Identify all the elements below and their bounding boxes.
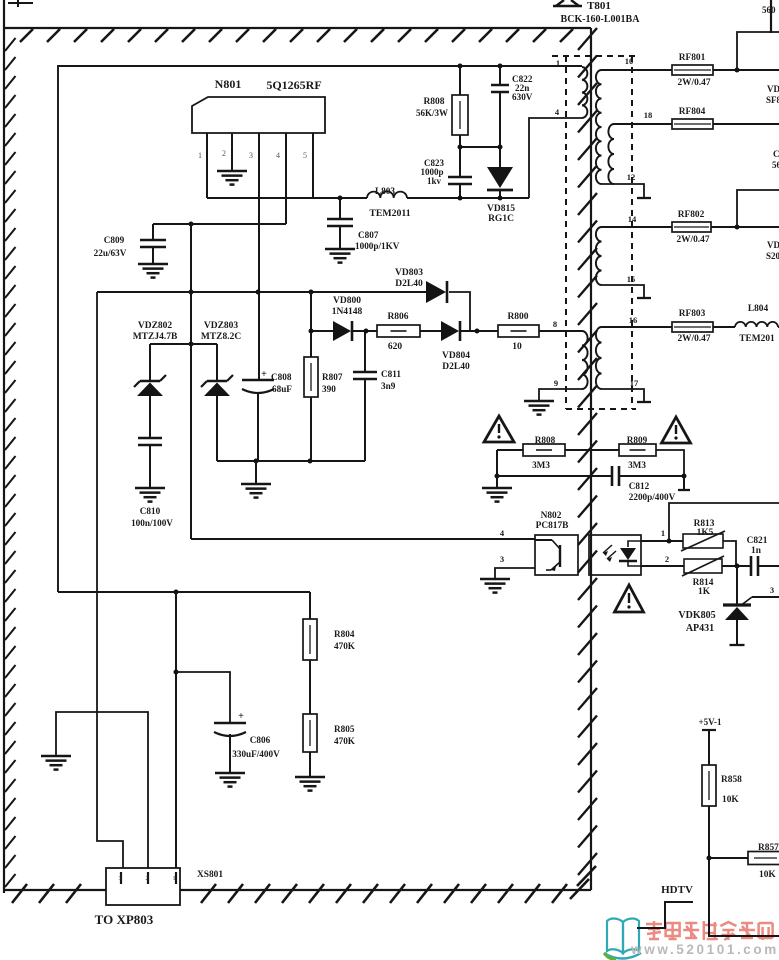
transformer T801 secondary winding pins 14-15 (596, 227, 602, 285)
svg-text:C812: C812 (629, 481, 650, 491)
svg-text:R804: R804 (334, 629, 355, 639)
wire RF801 output to right edge with branch up (713, 32, 779, 73)
capacitor C808 68uF electrolytic (242, 369, 292, 461)
wire R813 right lead down to pin2 node (723, 541, 736, 566)
wire VD800 to R806 (353, 329, 377, 334)
svg-text:1K: 1K (698, 587, 711, 597)
ground at transformer pin 9 (524, 401, 554, 415)
wire transformer pin 9 to ground (539, 378, 582, 401)
warning triangle below optocoupler LED (615, 585, 644, 612)
svg-text:+: + (238, 711, 244, 722)
wire transformer pin 16 to RF803 (602, 315, 673, 327)
zener diode VDZ803 MTZ8.2C (201, 321, 242, 461)
resistor R808 3M3 (497, 435, 565, 470)
zener diode VDZ802 MTZJ4.7B (133, 321, 178, 438)
wire branch x311 from y292 to VD800 anode node (310, 292, 312, 331)
svg-text:1000p/1KV: 1000p/1KV (355, 241, 400, 251)
svg-text:3: 3 (119, 876, 122, 882)
wire R808 to R809 across shield (565, 449, 619, 451)
svg-text:RG1C: RG1C (488, 214, 514, 224)
wire VD803 cathode down to R800 row (449, 292, 470, 331)
warning triangle near R808 3M3 (484, 416, 514, 442)
svg-text:N802: N802 (541, 511, 562, 521)
svg-text:N801: N801 (215, 77, 242, 91)
ground at left rail (41, 756, 71, 770)
svg-text:SF8: SF8 (766, 95, 779, 105)
fusible resistor RF803 2W/0.47 (672, 309, 713, 344)
svg-text:330uF/400V: 330uF/400V (232, 749, 280, 759)
svg-text:AP431: AP431 (686, 623, 714, 634)
svg-text:2: 2 (146, 876, 149, 882)
svg-text:VDZ803: VDZ803 (204, 321, 239, 331)
svg-text:RF804: RF804 (679, 107, 706, 117)
warning triangle near R809 (662, 417, 691, 443)
svg-text:TEM201: TEM201 (739, 334, 775, 344)
inductor L804 TEM201 (713, 304, 779, 344)
svg-text:R800: R800 (507, 312, 528, 322)
capacitor C809 22u/63V (94, 224, 166, 264)
capacitor C810 100n/100V (131, 438, 173, 528)
svg-text:560: 560 (762, 5, 776, 15)
svg-text:4: 4 (276, 151, 280, 160)
capacitor C823 1000p 1kv (420, 147, 472, 199)
clipped component labels at right edge (762, 5, 779, 261)
svg-text:MTZ8.2C: MTZ8.2C (201, 332, 242, 342)
svg-text:5: 5 (303, 151, 307, 160)
svg-text:10K: 10K (759, 870, 776, 880)
transformer T801 secondary winding pins 10-12 (596, 70, 602, 184)
svg-text:VD804: VD804 (442, 351, 470, 361)
svg-text:VDZ802: VDZ802 (138, 321, 173, 331)
svg-text:56: 56 (772, 160, 779, 170)
shield boundary top (hatched) (4, 28, 591, 42)
N801 pin 3 lead (long, to C808) (249, 133, 259, 379)
ground at R805 (295, 777, 325, 791)
svg-text:C809: C809 (104, 235, 125, 245)
wire drain node from N801 pin1 to transformer pin 4 (207, 118, 582, 201)
signal HDTV stub (637, 884, 693, 928)
op-amp U1 regulator IC N801 5Q1265RF body (192, 77, 325, 133)
svg-text:1: 1 (198, 151, 202, 160)
svg-text:470K: 470K (334, 641, 356, 651)
svg-text:TEM2011: TEM2011 (369, 208, 410, 219)
wire Vcc row y224 (153, 222, 286, 227)
node R858/R857 junction (707, 856, 712, 861)
svg-text:C807: C807 (358, 230, 379, 240)
svg-text:S20: S20 (766, 251, 779, 261)
svg-text:3n9: 3n9 (381, 381, 396, 391)
optocoupler N802 PC817B body (535, 511, 641, 575)
svg-text:2W/0.47: 2W/0.47 (676, 235, 709, 245)
capacitor C821 1n (747, 536, 779, 576)
transformer T801 primary winding pins 1-4 (555, 58, 588, 118)
svg-text:TO XP803: TO XP803 (95, 912, 154, 927)
diode VD804 D2L40 (441, 321, 470, 372)
fusible resistor RF804 (672, 107, 713, 129)
ground at C806 (215, 773, 245, 787)
svg-text:R858: R858 (721, 775, 742, 785)
capacitor C812 2200p/400V (612, 466, 676, 502)
svg-text:VDK805: VDK805 (678, 610, 715, 621)
svg-text:MTZJ4.7B: MTZJ4.7B (133, 332, 178, 342)
ground at C807 (325, 249, 355, 263)
wire VDK805 reference pin 3 from right edge (740, 585, 779, 606)
connector XS801 (106, 868, 223, 905)
svg-text:16: 16 (629, 315, 638, 325)
svg-text:VD815: VD815 (487, 204, 515, 214)
wire rail y292 from left to VD803 (97, 290, 426, 295)
svg-text:BCK-160-L001BA: BCK-160-L001BA (561, 14, 641, 25)
warning triangle at T801 (clipped) (553, 0, 582, 6)
svg-text:1N4148: 1N4148 (332, 307, 363, 317)
svg-text:C808: C808 (271, 372, 292, 382)
resistor R858 10K (702, 765, 742, 858)
wire transformer pin 15 return (602, 274, 652, 298)
svg-text:R807: R807 (322, 372, 343, 382)
scan artifact marks (8, 0, 771, 33)
wire B+ bottom rail y592 (58, 590, 310, 595)
svg-text:R805: R805 (334, 724, 355, 734)
wire R800 to transformer pin 8 (539, 319, 582, 331)
optocoupler phototransistor (pins 4,3) (535, 540, 560, 571)
svg-text:RF801: RF801 (679, 53, 706, 63)
shunt regulator VDK805 AP431 (678, 566, 751, 645)
svg-text:10: 10 (625, 56, 634, 66)
svg-text:3M3: 3M3 (532, 460, 550, 470)
svg-text:3: 3 (770, 585, 774, 595)
shield boundary right (hatched) (578, 28, 597, 890)
wire zener top rail y344 (150, 343, 217, 345)
wire transformer pin 17 return (602, 378, 652, 402)
svg-text:R808: R808 (423, 97, 444, 107)
svg-text:390: 390 (322, 384, 336, 394)
svg-text:1K5: 1K5 (697, 528, 714, 538)
wire R804 to R805 (309, 660, 311, 714)
svg-text:VD800: VD800 (333, 296, 361, 306)
N801 pin 2 lead to ground (222, 133, 232, 171)
svg-text:www.520101.com: www.520101.com (630, 942, 779, 957)
svg-text:RF803: RF803 (679, 309, 706, 319)
N801 pin 5 lead (303, 133, 313, 198)
svg-text:+5V-1: +5V-1 (699, 717, 722, 727)
resistor R806 620 (377, 312, 420, 352)
resistor R807 390 (304, 331, 343, 461)
wire feedback vertical x191 to optocoupler pin 4 (189, 224, 536, 539)
svg-text:2: 2 (665, 554, 669, 564)
resistor R813 1K5 (681, 519, 725, 551)
transformer T801 BCK-160-L001BA dashed outline (552, 56, 636, 409)
svg-text:2W/0.47: 2W/0.47 (677, 334, 710, 344)
svg-text:10: 10 (512, 342, 522, 352)
ground at C812 left (482, 476, 512, 502)
svg-text:VD8: VD8 (767, 240, 779, 250)
ground stub at rail y461 (241, 461, 271, 498)
svg-text:HDTV: HDTV (661, 884, 693, 896)
node junction dots on B+ rail (458, 64, 503, 69)
capacitor C811 3n9 (353, 331, 401, 461)
svg-text:68uF: 68uF (272, 384, 292, 394)
transformer T801 primary aux winding pins 8-9 (582, 331, 588, 389)
page border line left (4, 0, 16, 893)
label TO XP803 (95, 912, 154, 927)
svg-text:R808: R808 (535, 435, 556, 445)
fusible resistor RF802 2W/0.47 (672, 210, 711, 245)
svg-text:1: 1 (173, 876, 176, 882)
svg-text:10K: 10K (722, 795, 739, 805)
capacitor C806 330uF/400V electrolytic (214, 711, 280, 773)
power +5V-1 supply (699, 717, 722, 765)
svg-text:C810: C810 (140, 506, 161, 516)
optocoupler pin 4 label (500, 528, 505, 538)
wire divider tap vertical x176 to connector (174, 592, 179, 868)
svg-text:3: 3 (500, 554, 504, 564)
wire VD804 to R800 (461, 329, 498, 334)
svg-text:D2L40: D2L40 (442, 362, 470, 372)
wire optocoupler pin 3 to ground (495, 554, 535, 579)
svg-text:1n: 1n (751, 546, 762, 556)
ground at C810 (135, 488, 165, 502)
svg-text:5Q1265RF: 5Q1265RF (266, 78, 321, 92)
svg-text:2200p/400V: 2200p/400V (629, 492, 676, 502)
diode VD803 D2L40 (395, 268, 447, 303)
svg-text:1kv: 1kv (427, 176, 442, 186)
svg-text:VD8: VD8 (767, 84, 779, 94)
wire Vcc rectifier row y331 (309, 329, 334, 334)
diode VD815 RG1C (487, 147, 515, 224)
transformer T801 secondary winding pins 18-12 (608, 124, 614, 184)
capacitor C807 1000p/1KV (327, 198, 400, 251)
svg-text:470K: 470K (334, 736, 356, 746)
svg-text:620: 620 (388, 342, 403, 352)
svg-text:8: 8 (553, 319, 557, 329)
diode VD800 1N4148 (332, 296, 363, 341)
return stub at C812 right (678, 476, 690, 490)
wire long vertical x97 to connector pin (97, 292, 123, 868)
wire optocoupler pin 1 node and sense line to right edge (641, 503, 779, 544)
wire C806 branch (176, 672, 230, 723)
wire ground rail y712 to connector pin 2 (56, 712, 148, 868)
svg-text:1: 1 (556, 58, 560, 68)
N801 pin 4 lead (276, 133, 286, 224)
wire transformer pin 18 to RF804 (614, 110, 672, 124)
svg-text:C811: C811 (381, 369, 401, 379)
svg-text:L803: L803 (375, 186, 395, 196)
wire optocoupler pin 2 to R814 (641, 554, 684, 566)
resistor R857 10K (clipped) (709, 843, 779, 880)
shield boundary bottom (hatched) (4, 884, 591, 903)
wire RF802 output to right edge with branch up (711, 190, 779, 230)
svg-text:14: 14 (628, 214, 637, 224)
svg-text:9: 9 (554, 378, 558, 388)
wire bottom rail y461 (217, 459, 365, 464)
svg-text:C806: C806 (250, 735, 271, 745)
svg-text:22u/63V: 22u/63V (94, 248, 127, 258)
svg-text:3M3: 3M3 (628, 460, 646, 470)
wire B+ rail (left and top) (58, 66, 582, 592)
svg-text:C8: C8 (773, 149, 779, 159)
inductor L803 TEM2011 (367, 186, 411, 219)
resistor R809 3M3 (619, 435, 656, 470)
wire C812 row y476 (495, 450, 687, 479)
ground at N801 pin 2 (217, 171, 247, 185)
svg-text:1: 1 (661, 528, 665, 538)
svg-text:56K/3W: 56K/3W (416, 108, 448, 118)
svg-text:XS801: XS801 (197, 870, 223, 880)
svg-text:T801: T801 (587, 0, 611, 12)
svg-text:VD803: VD803 (395, 268, 423, 278)
transformer T801 labels (561, 0, 641, 25)
svg-text:D2L40: D2L40 (395, 279, 423, 289)
wire sense line down to bottom edge (709, 858, 779, 936)
svg-text:+: + (261, 369, 267, 380)
svg-text:L804: L804 (748, 304, 769, 314)
svg-text:R809: R809 (627, 435, 648, 445)
N801 pin 1 lead (198, 133, 207, 198)
svg-text:2: 2 (222, 149, 226, 158)
shield boundary corner hatch (570, 866, 596, 899)
wire R809 right lead down (656, 450, 684, 476)
wire transformer pin 14 to RF802 (602, 214, 673, 227)
svg-text:C821: C821 (747, 536, 768, 546)
wire snubber bottom junction (458, 145, 503, 150)
resistor R814 1K (682, 556, 724, 597)
wire R806 to VD804 (420, 330, 441, 332)
ground at C809 (138, 264, 168, 278)
fusible resistor RF801 2W/0.47 (672, 53, 713, 88)
wire transformer pin 10 to RF801 (602, 56, 673, 70)
svg-text:15: 15 (627, 274, 636, 284)
svg-text:17: 17 (630, 378, 639, 388)
svg-text:3: 3 (249, 151, 253, 160)
resistor R808 56K/3W (snubber) (416, 66, 468, 147)
transformer T801 secondary winding pins 16-17 (596, 327, 602, 389)
svg-text:R857: R857 (758, 843, 779, 853)
svg-text:PC817B: PC817B (536, 521, 569, 531)
resistor R804 470K (303, 592, 356, 660)
wire RF804 output to right edge (713, 123, 779, 125)
svg-text:100n/100V: 100n/100V (131, 518, 173, 528)
wire R814 output node (722, 564, 751, 569)
wire transformer pin 12 return (602, 172, 652, 198)
svg-text:R806: R806 (387, 312, 408, 322)
svg-text:RF802: RF802 (678, 210, 705, 220)
svg-text:2W/0.47: 2W/0.47 (677, 78, 710, 88)
svg-text:12: 12 (627, 172, 636, 182)
resistor R800 10 (498, 312, 539, 352)
capacitor C822 22n 630V (491, 66, 533, 147)
svg-text:18: 18 (644, 110, 653, 120)
resistor R805 470K (303, 714, 356, 777)
watermark logo (site) (604, 919, 779, 960)
ground at optocoupler pin 3 (480, 579, 510, 593)
svg-text:630V: 630V (512, 92, 533, 102)
optocoupler LED (pins 1,2) (603, 541, 641, 566)
